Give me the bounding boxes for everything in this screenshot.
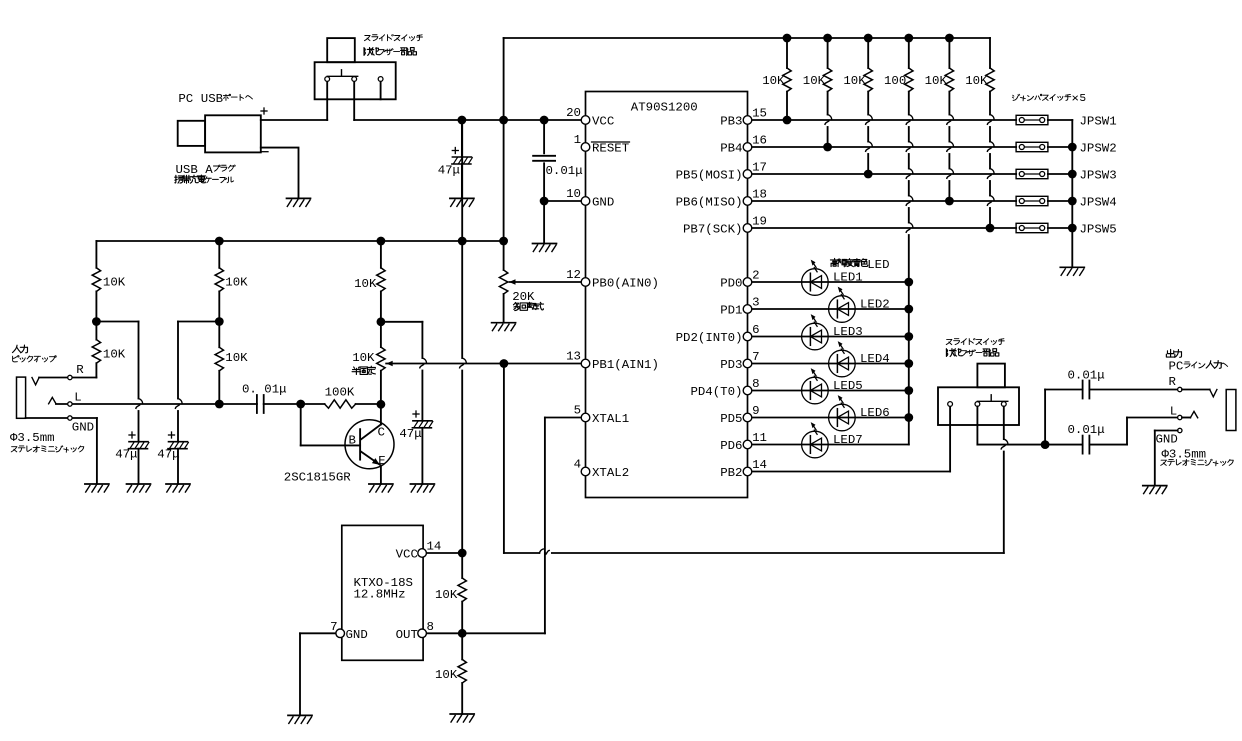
svg-text:RESET: RESET — [592, 142, 629, 156]
svg-text:2SC1815GR: 2SC1815GR — [284, 470, 351, 484]
svg-text:47μ: 47μ — [399, 427, 421, 441]
svg-text:10K: 10K — [435, 668, 458, 682]
svg-text:PD2(INT0): PD2(INT0) — [676, 331, 743, 345]
svg-text:10K: 10K — [225, 351, 248, 365]
svg-text:10K: 10K — [925, 74, 948, 88]
svg-text:19: 19 — [752, 215, 767, 229]
svg-text:P: P — [178, 92, 185, 106]
svg-text:8: 8 — [427, 620, 434, 634]
svg-text:L: L — [867, 258, 874, 272]
svg-text:C: C — [186, 92, 193, 106]
svg-text:JPSW3: JPSW3 — [1080, 169, 1117, 183]
svg-text:10K: 10K — [435, 588, 458, 602]
svg-text:PB2: PB2 — [720, 466, 742, 480]
svg-text:PB1(AIN1): PB1(AIN1) — [592, 358, 659, 372]
svg-text:PD4(T0): PD4(T0) — [690, 385, 742, 399]
svg-text:OUT: OUT — [396, 628, 418, 642]
svg-text:0.01μ: 0.01μ — [1068, 369, 1105, 383]
svg-text:47μ: 47μ — [438, 164, 460, 178]
svg-text:3: 3 — [752, 296, 759, 310]
svg-text:13: 13 — [566, 350, 581, 364]
svg-text:6: 6 — [752, 323, 759, 337]
svg-text:R: R — [1169, 375, 1177, 389]
svg-text:JPSW5: JPSW5 — [1080, 223, 1117, 237]
svg-text:U: U — [201, 92, 208, 106]
svg-text:20K: 20K — [512, 290, 535, 304]
svg-text:PB3: PB3 — [720, 115, 742, 129]
svg-text:PB4: PB4 — [720, 142, 742, 156]
svg-text:14: 14 — [752, 458, 767, 472]
svg-text:7: 7 — [330, 620, 337, 634]
svg-text:10K: 10K — [762, 74, 785, 88]
svg-text:B: B — [349, 434, 356, 448]
svg-text:Φ3.5mm: Φ3.5mm — [10, 431, 55, 445]
svg-text:AT90S1200: AT90S1200 — [631, 101, 698, 115]
svg-text:10K: 10K — [103, 348, 126, 362]
svg-text:D: D — [882, 258, 889, 272]
svg-text:20: 20 — [566, 106, 581, 120]
svg-text:1: 1 — [574, 133, 581, 147]
svg-text:LED6: LED6 — [860, 406, 890, 420]
svg-text:PB7(SCK): PB7(SCK) — [683, 223, 743, 237]
svg-text:B: B — [216, 92, 223, 106]
svg-text:VCC: VCC — [396, 548, 418, 562]
svg-text:LED7: LED7 — [833, 433, 863, 447]
svg-text:0.01μ: 0.01μ — [546, 164, 583, 178]
svg-text:XTAL2: XTAL2 — [592, 466, 629, 480]
svg-text:PD3: PD3 — [720, 358, 742, 372]
svg-text:7: 7 — [752, 350, 759, 364]
svg-text:A: A — [205, 163, 213, 177]
svg-text:R: R — [76, 363, 84, 377]
svg-text:PD0: PD0 — [720, 277, 742, 291]
svg-text:47μ: 47μ — [157, 448, 179, 462]
svg-text:LED2: LED2 — [860, 298, 890, 312]
svg-text:11: 11 — [752, 431, 767, 445]
svg-text:LED1: LED1 — [833, 271, 863, 285]
svg-text:P: P — [1169, 360, 1176, 374]
svg-text:S: S — [183, 163, 190, 177]
svg-text:Φ3.5mm: Φ3.5mm — [1162, 448, 1207, 462]
svg-text:5: 5 — [574, 404, 581, 418]
svg-text:JPSW4: JPSW4 — [1080, 196, 1117, 210]
svg-text:10K: 10K — [225, 276, 248, 290]
svg-text:PD1: PD1 — [720, 304, 742, 318]
svg-text:15: 15 — [752, 107, 767, 121]
svg-text:XTAL1: XTAL1 — [592, 412, 629, 426]
svg-text:C: C — [378, 426, 385, 440]
svg-text:10: 10 — [566, 187, 581, 201]
svg-text:L: L — [1170, 404, 1177, 418]
svg-text:16: 16 — [752, 134, 767, 148]
svg-text:LED5: LED5 — [833, 379, 863, 393]
svg-text:100K: 100K — [325, 385, 355, 399]
svg-text:17: 17 — [752, 161, 767, 175]
svg-text:E: E — [875, 258, 882, 272]
svg-text:L: L — [74, 390, 81, 404]
svg-text:U: U — [176, 163, 183, 177]
svg-text:10K: 10K — [103, 276, 126, 290]
svg-text:PB0(AIN0): PB0(AIN0) — [592, 277, 659, 291]
svg-text:12: 12 — [566, 268, 581, 282]
svg-text:VCC: VCC — [592, 115, 614, 129]
svg-text:100: 100 — [884, 74, 906, 88]
svg-text:GND: GND — [72, 420, 94, 434]
svg-text:E: E — [378, 454, 385, 468]
svg-text:10K: 10K — [803, 74, 826, 88]
svg-text:GND: GND — [346, 628, 368, 642]
svg-text:LED3: LED3 — [833, 325, 863, 339]
svg-text:14: 14 — [427, 540, 442, 554]
svg-text:LED4: LED4 — [860, 352, 890, 366]
svg-text:0.01μ: 0.01μ — [1068, 423, 1105, 437]
svg-text:10K: 10K — [354, 277, 377, 291]
svg-text:4: 4 — [574, 458, 581, 472]
svg-text:8: 8 — [752, 377, 759, 391]
svg-text:12.8MHz: 12.8MHz — [354, 588, 406, 602]
svg-text:0. 01μ: 0. 01μ — [242, 383, 287, 397]
svg-text:PD6: PD6 — [720, 439, 742, 453]
svg-text:18: 18 — [752, 188, 767, 202]
svg-text:9: 9 — [752, 404, 759, 418]
svg-text:PD5: PD5 — [720, 412, 742, 426]
svg-text:S: S — [208, 92, 215, 106]
svg-text:JPSW2: JPSW2 — [1080, 142, 1117, 156]
svg-text:JPSW1: JPSW1 — [1080, 115, 1117, 129]
svg-text:GND: GND — [1156, 433, 1178, 447]
svg-text:2: 2 — [752, 269, 759, 283]
svg-text:PB6(MISO): PB6(MISO) — [676, 196, 743, 210]
svg-text:10K: 10K — [965, 74, 988, 88]
svg-text:PB5(MOSI): PB5(MOSI) — [676, 169, 743, 183]
svg-text:GND: GND — [592, 196, 614, 210]
svg-text:10K: 10K — [352, 351, 375, 365]
svg-text:10K: 10K — [843, 74, 866, 88]
svg-text:C: C — [1176, 360, 1183, 374]
svg-text:47μ: 47μ — [115, 448, 137, 462]
